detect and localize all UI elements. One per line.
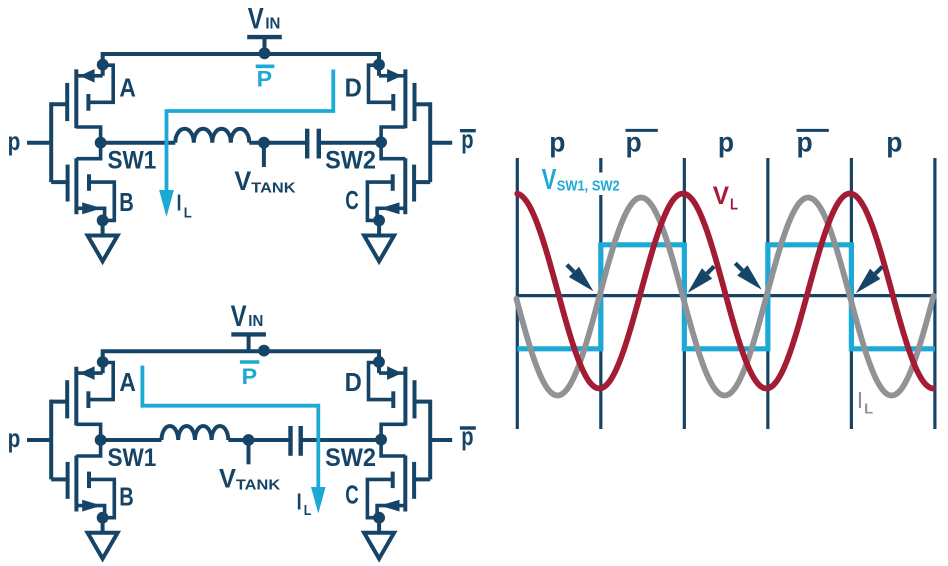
svg-text:I: I: [297, 489, 302, 515]
svg-text:C: C: [345, 185, 359, 215]
svg-text:SW1: SW1: [108, 147, 157, 175]
node source dot transistor B (circuit 1): [97, 215, 109, 227]
svg-text:L: L: [184, 205, 192, 222]
node SW1 dot (circuit 1): [95, 137, 107, 149]
svg-text:I: I: [177, 190, 182, 216]
svg-text:p: p: [8, 126, 21, 156]
waveform plot phase boundary vertical lines: [517, 158, 935, 429]
node source dot transistor C (circuit 1): [373, 215, 385, 227]
svg-text:B: B: [119, 187, 134, 217]
wire inductor to capacitor (circuit 1): [249, 141, 307, 145]
supply V_IN label (circuit 2): [231, 300, 264, 333]
svg-text:D: D: [345, 367, 362, 397]
gate bus wire right (circuit 1): [414, 102, 452, 182]
svg-text:A: A: [119, 73, 136, 103]
transistor A (PMOS, circuit 2): [67, 363, 113, 441]
wire V_TANK stub (circuit 2): [247, 440, 251, 464]
top rail wire V_IN (circuit 2): [103, 351, 379, 373]
wire SW1 to inductor (circuit 2): [101, 438, 162, 442]
arrow marker zero-crossing 1: [567, 265, 594, 292]
ground symbol right (circuit 1): [364, 220, 394, 261]
label V_L (dark red): [713, 182, 738, 214]
supply VIN bar symbol (circuit 1): [247, 37, 282, 54]
node V_TANK dot (circuit 2): [243, 434, 255, 446]
square wave V_SW1,SW2 (cyan): [517, 245, 935, 349]
ground symbol left (circuit 2): [88, 518, 118, 559]
inductor L (circuit 1): [175, 129, 249, 143]
svg-text:SW2: SW2: [325, 444, 376, 472]
label V_TANK (circuit 2): [219, 464, 280, 494]
label p-bar input (circuit 2): [460, 421, 476, 451]
svg-text:D: D: [345, 73, 362, 103]
arrow marker zero-crossing 4: [856, 267, 883, 294]
node SW1 dot (circuit 2): [95, 434, 107, 446]
label V_SW1,SW2 (cyan): [542, 164, 623, 196]
node V_IN tap dot (circuit 1): [259, 47, 271, 59]
transistor C (NMOS, circuit 2): [367, 440, 414, 518]
transistor A (PMOS, circuit 1): [67, 65, 113, 143]
wire capacitor to SW2 (circuit 2): [301, 438, 381, 442]
node SW2 dot (circuit 1): [375, 136, 387, 148]
sine curve V_L (dark red): [517, 194, 933, 389]
transistor D (PMOS, circuit 2): [369, 363, 415, 441]
label I_L (circuit 1): [177, 190, 192, 222]
svg-text:TANK: TANK: [236, 477, 280, 494]
wire V_TANK stub (circuit 1): [262, 143, 266, 167]
wire SW1 to inductor (circuit 1): [101, 141, 176, 145]
svg-text:p: p: [461, 124, 473, 154]
node drain dot transistor A (circuit 1): [97, 59, 109, 71]
svg-text:p: p: [461, 421, 473, 451]
node source dot transistor B (circuit 2): [97, 512, 109, 524]
svg-text:L: L: [864, 400, 873, 417]
wire cyan current path I_L (circuit 2): [142, 366, 318, 488]
label p-bar input (circuit 1): [460, 124, 476, 154]
svg-text:P: P: [242, 364, 258, 389]
arrowhead I_L (circuit 1): [159, 190, 174, 217]
arrow marker zero-crossing 3: [735, 263, 762, 290]
capacitor C (circuit 2): [291, 426, 301, 456]
supply V_IN label (circuit 1): [248, 2, 281, 35]
label I_L plot (gray): [858, 387, 873, 418]
svg-text:C: C: [345, 479, 359, 509]
transistor B (NMOS, circuit 2): [68, 440, 115, 518]
svg-text:p: p: [549, 126, 565, 157]
svg-text:V: V: [219, 464, 236, 494]
svg-text:p: p: [886, 126, 902, 157]
sine curve I_L (gray): [516, 198, 933, 396]
transistor D (PMOS, circuit 1): [369, 65, 415, 143]
node drain dot transistor D (circuit 2): [373, 356, 385, 368]
gate bus wire left (circuit 2): [27, 400, 68, 480]
svg-text:V: V: [234, 166, 251, 196]
arrowhead I_L (circuit 2): [311, 487, 326, 514]
node source dot transistor C (circuit 2): [373, 512, 385, 524]
svg-text:p: p: [718, 126, 734, 157]
capacitor C (circuit 1): [307, 129, 319, 159]
svg-text:IN: IN: [265, 15, 280, 32]
node V_TANK dot (circuit 1): [258, 137, 270, 149]
label P-bar (cyan, circuit 2): [240, 362, 259, 389]
label phase p region 3: [718, 126, 734, 157]
label I_L (circuit 2): [297, 489, 312, 519]
svg-text:p: p: [8, 423, 21, 453]
label P-bar (cyan, circuit 1): [256, 66, 275, 91]
ground symbol right (circuit 2): [364, 518, 394, 559]
supply VIN bar symbol (circuit 2): [231, 334, 266, 351]
svg-text:SW1, SW2: SW1, SW2: [557, 179, 620, 195]
label V_TANK (circuit 1): [234, 166, 295, 196]
svg-text:V: V: [248, 2, 264, 35]
svg-text:L: L: [730, 197, 738, 214]
top rail wire V_IN (circuit 1): [103, 54, 379, 76]
svg-text:SW2: SW2: [325, 147, 376, 175]
horizontal zero axis: [517, 294, 935, 297]
inductor L (circuit 2): [162, 426, 229, 440]
svg-text:P: P: [257, 67, 273, 92]
svg-text:B: B: [119, 481, 134, 511]
svg-text:IN: IN: [248, 313, 263, 330]
node SW2 dot (circuit 2): [375, 434, 387, 446]
wire capacitor to SW2 (circuit 1): [319, 141, 381, 145]
svg-text:V: V: [542, 164, 557, 196]
label phase p region 5: [886, 126, 902, 157]
label phase p-bar region 4: [797, 126, 829, 157]
transistor C (NMOS, circuit 1): [367, 143, 414, 221]
wire cyan current path I_L (circuit 1): [167, 70, 334, 192]
node drain dot transistor D (circuit 1): [373, 59, 385, 71]
label phase p-bar region 2: [626, 126, 658, 157]
ground symbol left (circuit 1): [88, 220, 118, 261]
svg-text:V: V: [713, 182, 730, 210]
node V_IN tap dot (circuit 2): [258, 345, 270, 357]
gate bus wire right (circuit 2): [414, 400, 452, 480]
svg-text:SW1: SW1: [108, 444, 157, 472]
svg-text:TANK: TANK: [251, 179, 295, 196]
transistor B (NMOS, circuit 1): [68, 143, 115, 221]
gate bus wire left (circuit 1): [27, 102, 68, 182]
arrow marker zero-crossing 2: [688, 266, 715, 293]
wire inductor to capacitor (circuit 2): [228, 438, 290, 442]
label phase p region 1: [549, 126, 565, 157]
svg-text:A: A: [119, 367, 136, 397]
svg-text:I: I: [858, 387, 862, 413]
svg-text:V: V: [231, 300, 247, 333]
svg-text:L: L: [304, 502, 312, 519]
node drain dot transistor A (circuit 2): [97, 356, 109, 368]
